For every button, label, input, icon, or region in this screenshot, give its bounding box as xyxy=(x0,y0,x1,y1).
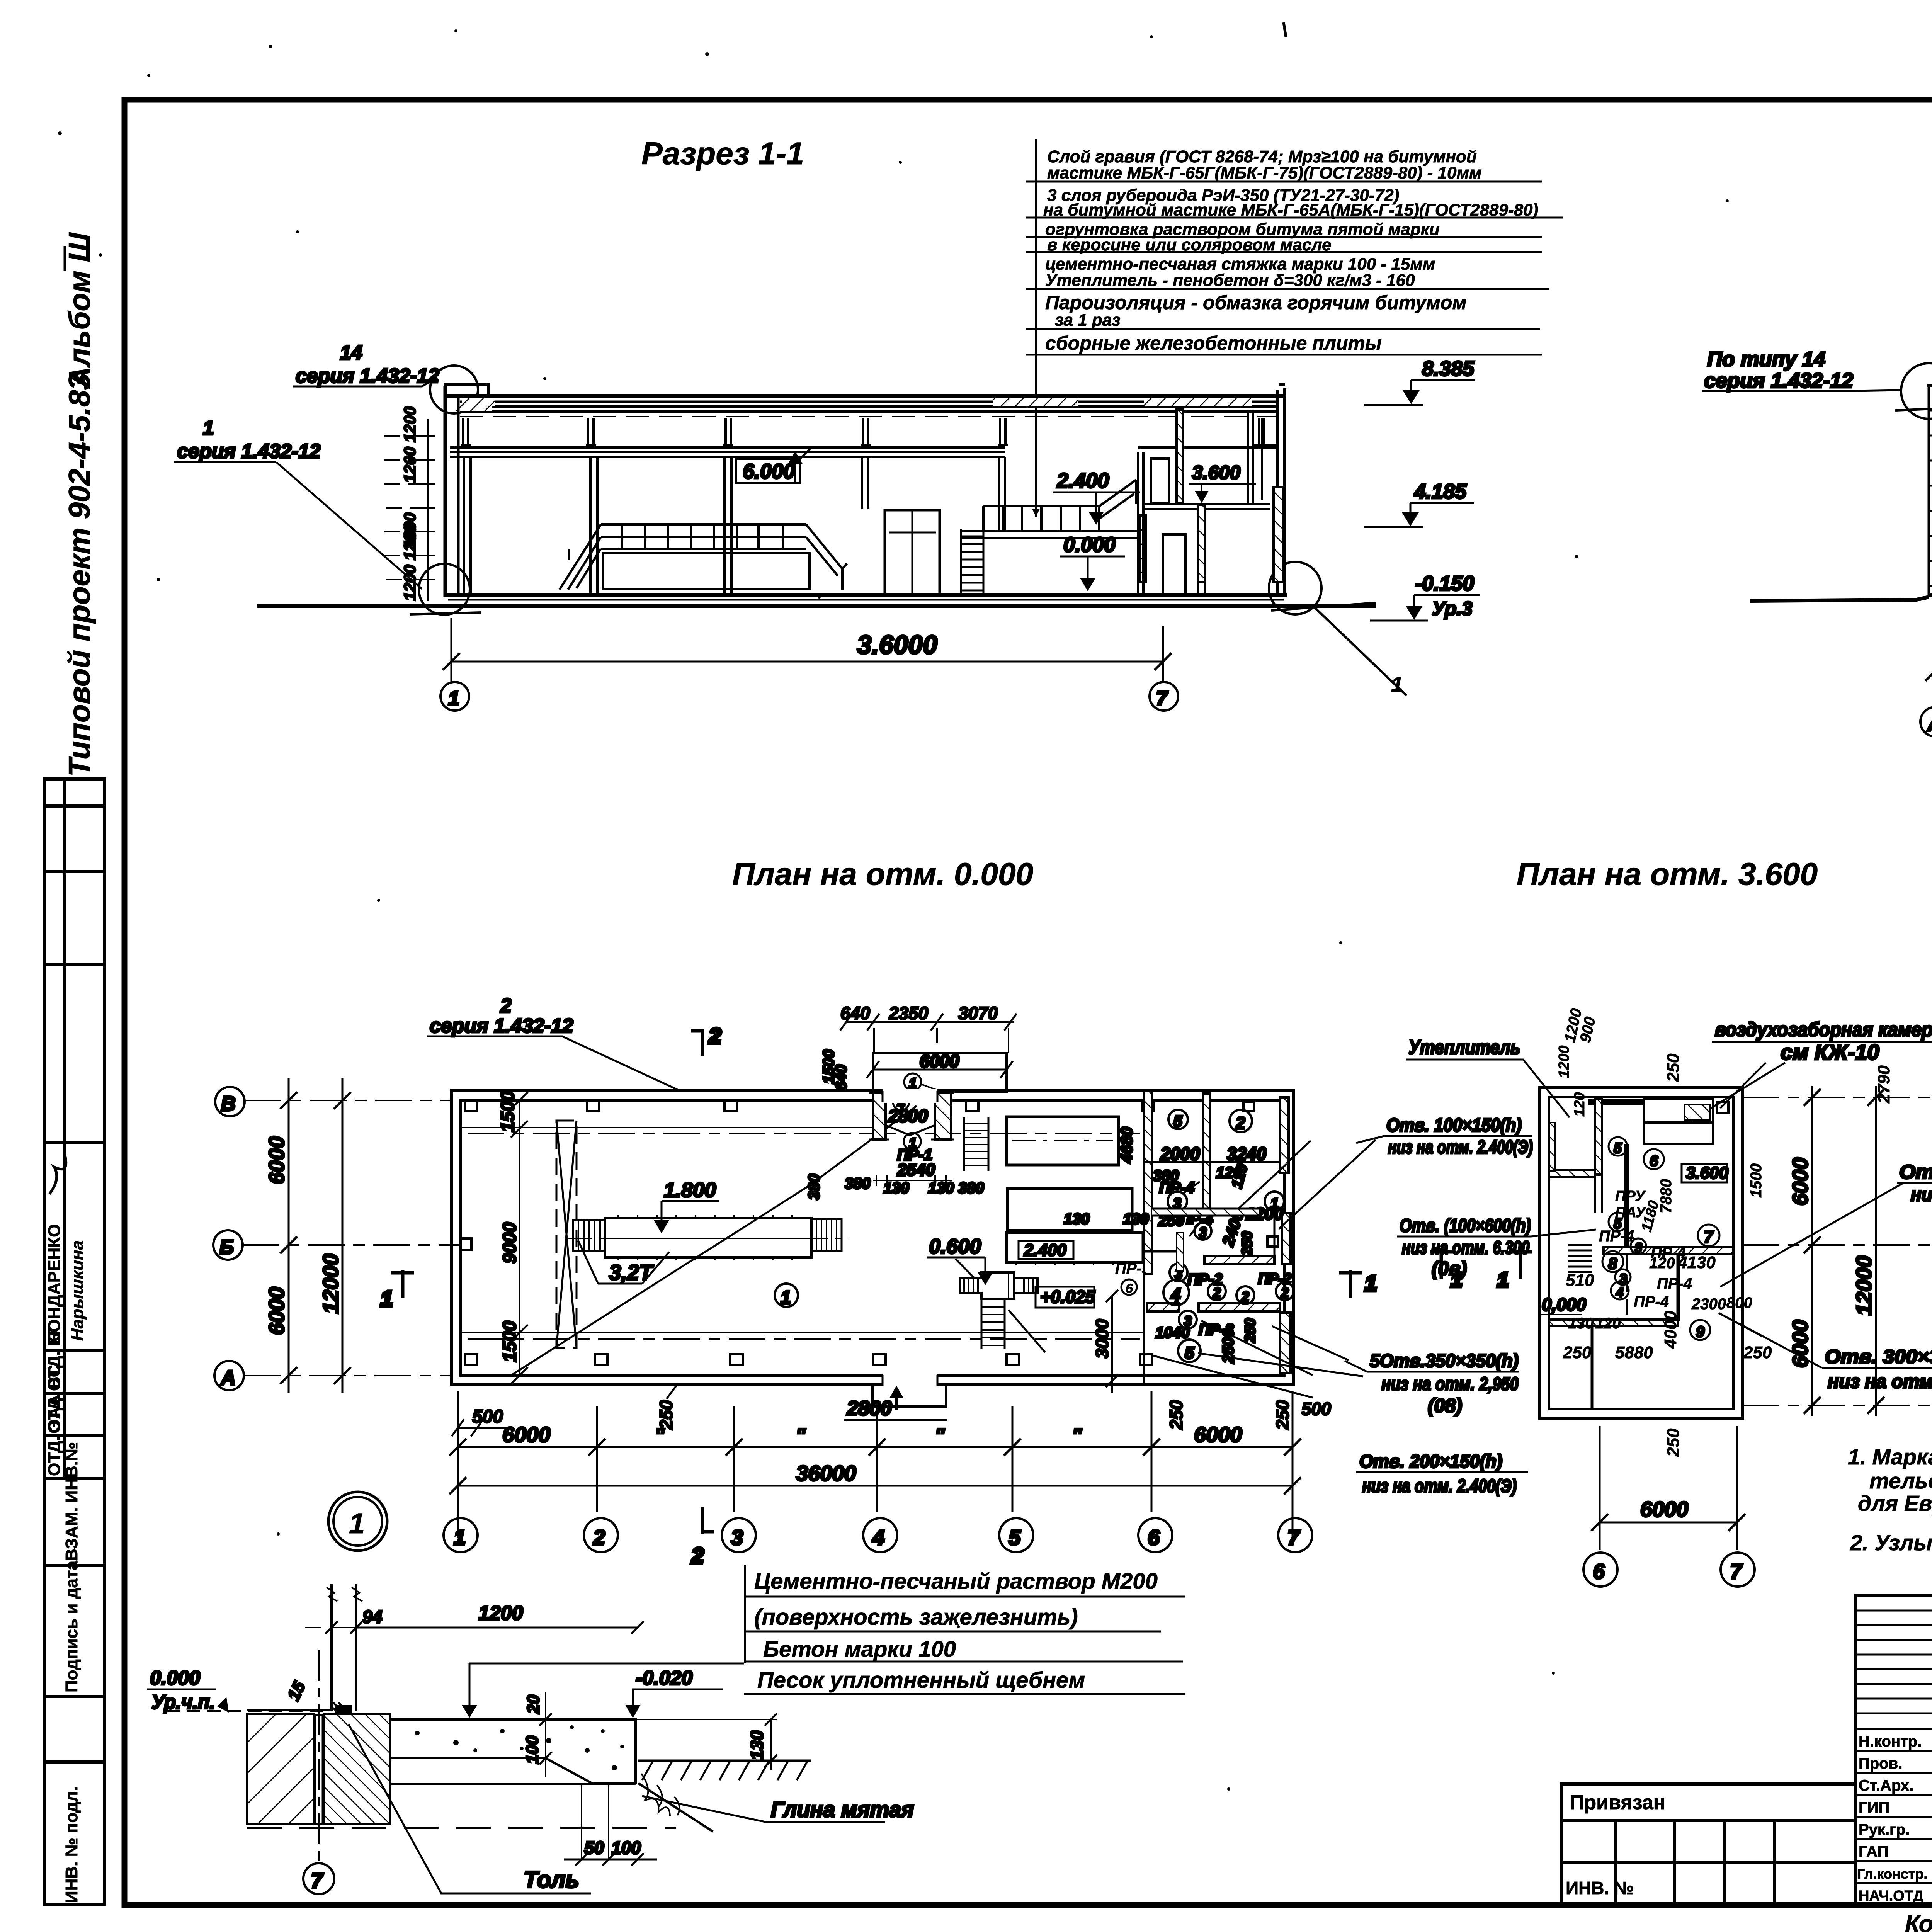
2.400 boxed xyxy=(1019,1241,1073,1260)
wall pilasters top xyxy=(461,1100,1154,1365)
svg-text:серия 1.432-12: серия 1.432-12 xyxy=(177,440,321,463)
svg-text:низ на отм. 2,950: низ на отм. 2,950 xyxy=(1381,1374,1519,1395)
detail circle left eave xyxy=(1901,363,1932,419)
svg-text:серия 1.432-12: серия 1.432-12 xyxy=(1704,369,1853,392)
interior walls plan36 xyxy=(1549,1099,1733,1409)
svg-text:4: 4 xyxy=(1170,1285,1181,1305)
svg-text:7: 7 xyxy=(1156,687,1168,710)
svg-text:ВЗАМ. ИНВ.№: ВЗАМ. ИНВ.№ xyxy=(62,1442,81,1561)
long diagonal leader across hall xyxy=(512,1185,810,1375)
svg-text:250: 250 xyxy=(1563,1343,1592,1362)
svg-text:5: 5 xyxy=(1614,1140,1622,1156)
svg-text:4: 4 xyxy=(872,1525,884,1549)
svg-text:6: 6 xyxy=(1593,1559,1605,1583)
svg-text:2: 2 xyxy=(691,1543,704,1568)
left height dims xyxy=(384,406,435,601)
0.000 ur.ch.p. xyxy=(147,1667,330,1713)
0.600 label with arrow xyxy=(927,1235,993,1285)
leader diagonals to otv notes xyxy=(1198,1326,1363,1376)
svg-text:2800: 2800 xyxy=(847,1397,892,1420)
otv 300x300 h 6.650 note right xyxy=(1720,1161,1932,1287)
svg-text:800: 800 xyxy=(1726,1294,1752,1311)
svg-text:Привязан: Привязан xyxy=(1570,1791,1665,1814)
dims 50 100 bottom xyxy=(564,1785,657,1866)
plan36 small texts xyxy=(1556,1007,1893,1457)
svg-text:3240: 3240 xyxy=(1227,1144,1267,1164)
dims 94 and 1200 xyxy=(284,1602,644,1704)
detail axis circle 7 xyxy=(303,1863,334,1894)
svg-text:-0.150: -0.150 xyxy=(1415,572,1474,595)
svg-text:Пров.: Пров. xyxy=(1859,1755,1902,1772)
leader 1 seriya 1.432-12 bottom left xyxy=(174,417,422,589)
svg-text:Типовой проект 902-4-5.83: Типовой проект 902-4-5.83 xyxy=(62,373,96,777)
svg-text:120: 120 xyxy=(1595,1315,1621,1332)
svg-text:2350: 2350 xyxy=(888,1003,929,1023)
corner room walls xyxy=(1204,1212,1223,1216)
svg-text:Б: Б xyxy=(219,1236,234,1259)
svg-text:130: 130 xyxy=(1568,1315,1594,1332)
svg-text:94: 94 xyxy=(362,1607,382,1627)
roof I-beam hangers xyxy=(461,418,1267,445)
right axis lines and circles xyxy=(1743,1097,1932,1405)
svg-text:1500: 1500 xyxy=(498,1091,518,1132)
filter tank xyxy=(573,1215,842,1260)
svg-text:6000: 6000 xyxy=(264,1136,289,1184)
left vertical dimension chains xyxy=(264,1078,528,1393)
bottom room hatched walls xyxy=(1147,1303,1179,1311)
wall above xyxy=(327,1584,362,1711)
svg-text:2000: 2000 xyxy=(1160,1144,1200,1164)
stairs below cross xyxy=(981,1299,1045,1352)
leader to slab xyxy=(469,1663,744,1713)
svg-text:Н.контр.: Н.контр. xyxy=(1859,1733,1922,1750)
svg-text:Альбом Ш: Альбом Ш xyxy=(62,232,96,389)
wall openings at entrances xyxy=(883,1089,937,1103)
parapet left xyxy=(444,384,488,397)
svg-text:6000: 6000 xyxy=(502,1422,551,1447)
svg-text:ГАП: ГАП xyxy=(1859,1843,1888,1860)
section mark 2 top xyxy=(691,1024,721,1056)
svg-text:за 1 раз: за 1 раз xyxy=(1055,311,1121,330)
svg-text:сборные железобетонные плиты: сборные железобетонные плиты xyxy=(1045,332,1382,354)
svg-text:Ст.Арх.: Ст.Арх. xyxy=(1859,1777,1913,1794)
svg-text:2.400: 2.400 xyxy=(1024,1241,1067,1260)
0.000 box xyxy=(1540,1294,1587,1315)
6.000 label boxed xyxy=(736,447,811,483)
3000 dim xyxy=(1092,1290,1118,1393)
svg-text:0.000: 0.000 xyxy=(150,1667,200,1689)
filter tank with railing xyxy=(560,524,847,590)
svg-text:510: 510 xyxy=(1566,1271,1594,1290)
floor line left of wall xyxy=(247,1710,332,1715)
svg-text:Отв. 200×150(h): Отв. 200×150(h) xyxy=(1359,1451,1502,1472)
hatched door piers xyxy=(873,1093,886,1139)
svg-text:1: 1 xyxy=(203,417,214,439)
svg-text:тельства, расположенных южнее: тельства, расположенных южнее географиче… xyxy=(1869,1469,1932,1493)
svg-text:6: 6 xyxy=(1650,1153,1658,1170)
svg-text:7: 7 xyxy=(1287,1525,1301,1549)
svg-text:2: 2 xyxy=(500,995,512,1017)
svg-text:1: 1 xyxy=(1497,1269,1509,1291)
svg-text:6000: 6000 xyxy=(1640,1497,1689,1521)
svg-text:3,2Т: 3,2Т xyxy=(609,1260,654,1284)
svg-text:12000: 12000 xyxy=(318,1253,343,1314)
axis circle A xyxy=(1920,707,1932,736)
building: roof slab xyxy=(444,396,1285,517)
dim 130 right xyxy=(636,1713,777,1770)
svg-text:8.385: 8.385 xyxy=(1422,357,1475,380)
svg-text:1: 1 xyxy=(349,1507,365,1539)
axis circles 1-7 bottom xyxy=(444,1518,1312,1552)
svg-text:3000: 3000 xyxy=(1092,1319,1112,1359)
svg-text:1: 1 xyxy=(448,687,459,710)
concrete dots in slab xyxy=(415,1725,624,1770)
svg-text:1040: 1040 xyxy=(1155,1324,1190,1341)
svg-text:5880: 5880 xyxy=(1615,1343,1653,1362)
bottom porch xyxy=(844,1384,947,1420)
svg-text:Гл.констр.: Гл.констр. xyxy=(1857,1866,1927,1882)
svg-text:ОТД. ЭАА: ОТД. ЭАА xyxy=(45,1395,64,1476)
svg-text:ПР-2: ПР-2 xyxy=(1258,1271,1291,1287)
svg-text:Разрез 1-1: Разрез 1-1 xyxy=(641,136,804,171)
2.400 label xyxy=(1053,469,1140,525)
dimension 3.6000 xyxy=(443,618,1172,682)
svg-text:1: 1 xyxy=(781,1287,791,1308)
room tags xyxy=(1168,1110,1188,1129)
svg-text:120: 120 xyxy=(1649,1255,1675,1272)
right rooms walls xyxy=(1138,410,1284,595)
svg-text:Цементно-песчаный раствор М200: Цементно-песчаный раствор М200 xyxy=(754,1569,1158,1594)
interior apron lines xyxy=(461,1128,1143,1332)
ground line xyxy=(257,604,1376,608)
svg-text:1: 1 xyxy=(909,1075,917,1091)
middle double door xyxy=(885,510,940,594)
axis6 dividing wall hatched xyxy=(1144,1091,1152,1274)
building 2-2: parapet top xyxy=(1927,384,1932,387)
svg-text:1: 1 xyxy=(1391,672,1403,696)
svg-text:1. Марка кровельной мастики в: 1. Марка кровельной мастики в скобках да… xyxy=(1848,1445,1932,1469)
svg-text:20: 20 xyxy=(524,1695,543,1714)
svg-text:Отв.300×300(h): Отв.300×300(h) xyxy=(1899,1161,1932,1183)
svg-text:0.000: 0.000 xyxy=(1063,533,1116,556)
svg-text:250: 250 xyxy=(1743,1343,1772,1362)
dimension 12000 xyxy=(1925,603,1932,692)
svg-text:5: 5 xyxy=(1173,1113,1182,1130)
+0.025 boxed xyxy=(1036,1287,1095,1308)
svg-text:серия 1.432-12: серия 1.432-12 xyxy=(430,1015,573,1037)
small squares xyxy=(1267,1236,1278,1247)
right wall xyxy=(1276,390,1279,597)
room divider line xyxy=(1144,1161,1280,1163)
svg-text:1200: 1200 xyxy=(478,1602,523,1624)
svg-text:ПР-4: ПР-4 xyxy=(1159,1179,1194,1196)
svg-text:380: 380 xyxy=(806,1174,823,1200)
svg-text:4.185: 4.185 xyxy=(1414,480,1467,503)
caulk black square xyxy=(335,1705,352,1722)
dims 20 / 100 vertical xyxy=(523,1692,552,1777)
svg-text:36000: 36000 xyxy=(796,1461,856,1485)
svg-text:ПР-2: ПР-2 xyxy=(1187,1271,1223,1288)
svg-text:8: 8 xyxy=(1608,1254,1617,1272)
svg-text:5Отв.350×350(h): 5Отв.350×350(h) xyxy=(1370,1351,1519,1371)
svg-text:0.600: 0.600 xyxy=(929,1235,981,1258)
left precast wall xyxy=(1929,385,1932,597)
elevation -0.150 ur.3 xyxy=(1370,572,1480,621)
svg-text:6.000: 6.000 xyxy=(743,460,795,483)
ground line xyxy=(1750,597,1932,601)
svg-text:″: ″ xyxy=(935,1425,945,1446)
svg-text:А: А xyxy=(220,1367,236,1389)
svg-text:(08): (08) xyxy=(1428,1395,1462,1417)
svg-text:1500: 1500 xyxy=(500,1321,520,1362)
svg-text:2: 2 xyxy=(1241,1289,1249,1304)
svg-text:3.6000: 3.6000 xyxy=(857,630,937,660)
svg-text:250: 250 xyxy=(1272,1400,1293,1430)
leader: po tipu 14 xyxy=(1702,348,1900,392)
floor xyxy=(1929,593,1932,597)
svg-text:1200 1200: 1200 1200 xyxy=(401,406,419,483)
leader 14 seriya 1.432-12 top left xyxy=(293,342,439,387)
svg-text:0,000: 0,000 xyxy=(1542,1294,1587,1315)
svg-text:Утеплитель - пенобетон δ=300 к: Утеплитель - пенобетон δ=300 кг/м3 - 160 xyxy=(1045,271,1415,290)
right rooms block plan0 xyxy=(1123,1091,1313,1398)
axis circle 7 xyxy=(1150,682,1178,711)
svg-text:Рук.гр.: Рук.гр. xyxy=(1859,1821,1910,1838)
right outer wall hatched segments xyxy=(1280,1097,1289,1173)
svg-text:5: 5 xyxy=(1009,1525,1021,1549)
svg-text:ПРУ: ПРУ xyxy=(1615,1188,1646,1204)
svg-text:130: 130 xyxy=(883,1180,909,1197)
corridor wall xyxy=(1203,1094,1210,1211)
notes xyxy=(1848,1445,1932,1555)
svg-text:4000: 4000 xyxy=(1661,1311,1680,1349)
svg-text:250: 250 xyxy=(1664,1053,1683,1082)
svg-text:640: 640 xyxy=(833,1065,850,1090)
svg-text:1200 1200: 1200 1200 xyxy=(401,524,419,601)
svg-text:Пароизоляция - обмазка горячим: Пароизоляция - обмазка горячим битумом xyxy=(1045,292,1466,313)
ladder mid xyxy=(961,529,983,595)
svg-text:130 380: 130 380 xyxy=(928,1180,984,1197)
svg-text:Подпись и дата: Подпись и дата xyxy=(62,1561,81,1692)
svg-text:Отв. (100×600(h): Отв. (100×600(h) xyxy=(1400,1216,1531,1236)
svg-text:6000: 6000 xyxy=(264,1287,289,1335)
signature scribble xyxy=(49,1155,66,1194)
section T marks between plans xyxy=(1430,1252,1932,1291)
axis circle V left xyxy=(213,1087,245,1390)
3,2T crane label xyxy=(578,1240,669,1284)
svg-text:ПР-4: ПР-4 xyxy=(1599,1228,1634,1245)
svg-text:250: 250 xyxy=(1664,1428,1683,1457)
interior long dash-dot crane rails xyxy=(468,1133,1140,1339)
building plan 3.600 xyxy=(1540,1088,1743,1418)
bottom dim plan36 xyxy=(1583,1426,1755,1587)
svg-text:6: 6 xyxy=(1126,1281,1133,1296)
svg-text:По типу 14: По типу 14 xyxy=(1707,348,1825,371)
svg-text:(поверхность зажелезнить): (поверхность зажелезнить) xyxy=(754,1605,1078,1630)
elevation 4.185 xyxy=(1364,480,1474,527)
svg-text:Толь: Толь xyxy=(524,1867,579,1893)
room tags plan36 xyxy=(1602,1137,1719,1340)
svg-text:7: 7 xyxy=(311,1869,324,1892)
svg-text:см КЖ-10: см КЖ-10 xyxy=(1781,1040,1879,1064)
svg-text:500: 500 xyxy=(1301,1399,1331,1419)
tank axis dash line xyxy=(565,1238,848,1239)
svg-text:2: 2 xyxy=(1281,1285,1289,1301)
svg-text:+0.025: +0.025 xyxy=(1040,1287,1095,1307)
svg-text:1500: 1500 xyxy=(1748,1163,1765,1198)
svg-text:ПР-4: ПР-4 xyxy=(1634,1293,1669,1310)
svg-text:1: 1 xyxy=(1451,1269,1462,1291)
svg-text:ИНВ. № подл.: ИНВ. № подл. xyxy=(62,1786,81,1903)
svg-text:Копировал: Корецкая: Копировал: Корецкая xyxy=(1905,1911,1932,1932)
svg-text:Отв. 100×150(h): Отв. 100×150(h) xyxy=(1386,1115,1522,1136)
svg-text:серия 1.432-12: серия 1.432-12 xyxy=(296,365,439,387)
3.600 label right xyxy=(1189,462,1256,503)
svg-text:2: 2 xyxy=(593,1525,605,1549)
roofing leader from spec block xyxy=(1032,509,1040,517)
extra hatched interior walls right rooms xyxy=(1151,1209,1260,1216)
svg-text:3.600: 3.600 xyxy=(1686,1163,1729,1182)
svg-text:7: 7 xyxy=(1704,1228,1714,1247)
svg-text:-0.020: -0.020 xyxy=(636,1667,693,1689)
svg-text:низ на отм. 2.400(Э): низ на отм. 2.400(Э) xyxy=(1388,1137,1533,1158)
tol leader xyxy=(349,1724,591,1893)
glina myataya xyxy=(642,1796,914,1822)
svg-text:6000: 6000 xyxy=(920,1051,959,1071)
svg-text:низ на отм. 6.650: низ на отм. 6.650 xyxy=(1911,1184,1932,1205)
floor layers spec block xyxy=(462,1565,1185,1718)
svg-text:130: 130 xyxy=(1064,1211,1090,1228)
uteplitel leader xyxy=(1406,1036,1570,1117)
svg-text:2.400: 2.400 xyxy=(1056,469,1109,492)
otv 100x150 note xyxy=(1356,1115,1533,1158)
otv 100x600 note xyxy=(1397,1216,1596,1279)
svg-text:ИНВ. №: ИНВ. № xyxy=(1566,1878,1634,1898)
svg-text:1: 1 xyxy=(381,1286,393,1311)
svg-text:100: 100 xyxy=(611,1838,641,1858)
svg-text:1200: 1200 xyxy=(1556,1045,1572,1078)
svg-text:3: 3 xyxy=(1635,1240,1642,1255)
svg-text:мастике МБК-Г-65Г(МБК-Г-75)(ГО: мастике МБК-Г-65Г(МБК-Г-75)(ГОСТ2889-80)… xyxy=(1047,163,1482,182)
svg-text:250: 250 xyxy=(1166,1400,1186,1430)
svg-text:2800: 2800 xyxy=(888,1106,928,1126)
svg-text:Ур.3: Ур.3 xyxy=(1432,598,1473,619)
left stamp column texts xyxy=(45,1155,87,1903)
svg-text:А: А xyxy=(1927,713,1932,736)
vozduhozaborna kamera leader xyxy=(1689,1019,1932,1121)
svg-text:6000: 6000 xyxy=(1194,1422,1242,1447)
svg-text:14: 14 xyxy=(340,342,362,364)
svg-text:3070: 3070 xyxy=(958,1003,998,1023)
svg-text:″: ″ xyxy=(655,1425,665,1446)
svg-text:2. Узлы крепления окон выполни: 2. Узлы крепления окон выполнить по сери… xyxy=(1850,1531,1932,1555)
concrete slab xyxy=(352,1719,636,1783)
svg-text:воздухозаборная камера: воздухозаборная камера xyxy=(1715,1019,1932,1041)
svg-text:Бетон марки 100: Бетон марки 100 xyxy=(763,1637,956,1662)
dashed line under roof xyxy=(460,416,1277,417)
detail circle at parapet xyxy=(430,366,478,413)
svg-text:4130: 4130 xyxy=(1677,1253,1716,1272)
svg-text:Ур.ч.п.: Ур.ч.п. xyxy=(151,1691,215,1713)
bottom dim small 500 and 250s xyxy=(452,1383,1331,1436)
room tag 1 xyxy=(775,1284,798,1308)
svg-text:НАЧ.ОТД: НАЧ.ОТД xyxy=(1859,1888,1923,1904)
svg-text:Песок уплотненный щебнем: Песок уплотненный щебнем xyxy=(757,1668,1085,1693)
axis circle 1 xyxy=(440,682,469,711)
svg-text:для Европейской и 53° для Азиа: для Европейской и 53° для Азиатской част… xyxy=(1858,1491,1932,1516)
air intake chamber top right xyxy=(1588,1099,1728,1144)
svg-text:130: 130 xyxy=(1123,1211,1149,1228)
svg-text:2300: 2300 xyxy=(1691,1296,1726,1313)
diagonal leaders xyxy=(1151,1321,1313,1398)
svg-text:9: 9 xyxy=(1696,1323,1705,1340)
svg-text:″: ″ xyxy=(796,1425,806,1446)
3.600 box xyxy=(1682,1163,1729,1182)
svg-text:низ на отм. 2.400(Э): низ на отм. 2.400(Э) xyxy=(1362,1476,1517,1497)
otv 300x300 6.260 note right xyxy=(1719,1313,1932,1392)
svg-text:4: 4 xyxy=(1616,1284,1624,1300)
svg-text:3.600: 3.600 xyxy=(1192,462,1240,483)
svg-text:130: 130 xyxy=(747,1730,767,1760)
interior columns xyxy=(464,457,1005,595)
floor slab xyxy=(444,593,1287,597)
0.000 label xyxy=(1060,533,1125,591)
axis line of detail wall xyxy=(318,1650,320,1861)
left stamp column boxes xyxy=(45,779,105,1905)
svg-text:Нарышкина: Нарышкина xyxy=(68,1240,87,1341)
svg-text:4680: 4680 xyxy=(1117,1127,1136,1163)
svg-text:12000: 12000 xyxy=(1852,1255,1876,1316)
top dims above entrance xyxy=(840,1003,1017,1053)
equipment rooms upper right of hall xyxy=(964,1117,1143,1265)
ceiling beam xyxy=(450,447,1005,457)
otv 200x150 note xyxy=(1356,1451,1528,1497)
stair flight outside left xyxy=(1568,1245,1592,1272)
leader 2 seriya 1.432-12 xyxy=(427,995,681,1091)
top mark near centre xyxy=(1284,22,1286,37)
left wall xyxy=(444,386,447,597)
svg-text:250: 250 xyxy=(1239,1231,1255,1256)
svg-text:9000: 9000 xyxy=(500,1222,520,1264)
svg-text:2: 2 xyxy=(1235,1114,1245,1133)
svg-text:Отв. 300×300: Отв. 300×300 xyxy=(1825,1346,1932,1367)
svg-text:План на отм. 3.600: План на отм. 3.600 xyxy=(1517,857,1818,892)
svg-text:ГИП: ГИП xyxy=(1859,1799,1889,1816)
dashed base lines xyxy=(390,1783,636,1785)
signature table xyxy=(1856,1596,1932,1905)
cross platform equipment xyxy=(960,1272,1038,1299)
svg-text:Утеплитель: Утеплитель xyxy=(1408,1036,1520,1059)
svg-text:2540: 2540 xyxy=(897,1160,935,1179)
section mark 2 bottom xyxy=(691,1507,714,1568)
crane bridge dashed with X xyxy=(556,1121,577,1348)
svg-text:5: 5 xyxy=(1185,1344,1194,1362)
svg-text:6000: 6000 xyxy=(1788,1157,1812,1206)
svg-text:7: 7 xyxy=(1730,1559,1743,1583)
svg-text:6: 6 xyxy=(1148,1525,1160,1549)
-0.020 label xyxy=(625,1667,723,1718)
svg-text:100: 100 xyxy=(523,1735,542,1764)
svg-text:План на отм. 0.000: План на отм. 0.000 xyxy=(732,857,1033,892)
svg-text:″: ″ xyxy=(1072,1425,1082,1446)
detail circle floor right xyxy=(1269,562,1321,614)
building outline plan0 xyxy=(451,1091,1294,1384)
svg-text:250: 250 xyxy=(1242,1318,1259,1343)
svg-text:1.800: 1.800 xyxy=(664,1179,716,1202)
platform 2.400 with railing xyxy=(961,480,1138,538)
svg-text:1: 1 xyxy=(1365,1271,1377,1295)
svg-text:3: 3 xyxy=(731,1525,743,1549)
